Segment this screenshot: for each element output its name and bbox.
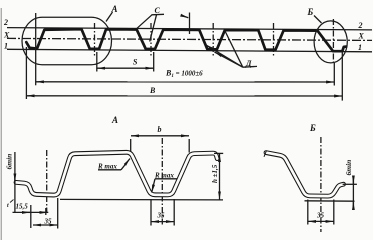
svg-text:h ±1,5: h ±1,5: [211, 164, 219, 183]
svg-text:6min: 6min: [344, 160, 353, 176]
svg-text:15,5: 15,5: [16, 203, 29, 211]
svg-text:35: 35: [316, 211, 325, 219]
svg-text:S: S: [133, 58, 138, 67]
svg-text:35: 35: [44, 218, 53, 226]
svg-text:1: 1: [4, 42, 8, 51]
svg-text:6min: 6min: [5, 154, 14, 170]
svg-text:X: X: [358, 32, 365, 41]
svg-text:Б: Б: [309, 123, 316, 133]
svg-text:В1 = 1000±6: В1 = 1000±6: [165, 69, 203, 80]
svg-text:С: С: [155, 6, 161, 15]
svg-text:А: А: [111, 115, 118, 125]
svg-text:2: 2: [358, 21, 363, 30]
svg-text:X: X: [3, 31, 10, 40]
svg-text:b: b: [158, 125, 162, 134]
svg-text:Б: Б: [307, 7, 314, 17]
svg-text:35: 35: [157, 212, 166, 220]
svg-text:2: 2: [3, 18, 8, 27]
svg-text:В: В: [149, 86, 156, 95]
svg-text:1: 1: [358, 43, 362, 52]
